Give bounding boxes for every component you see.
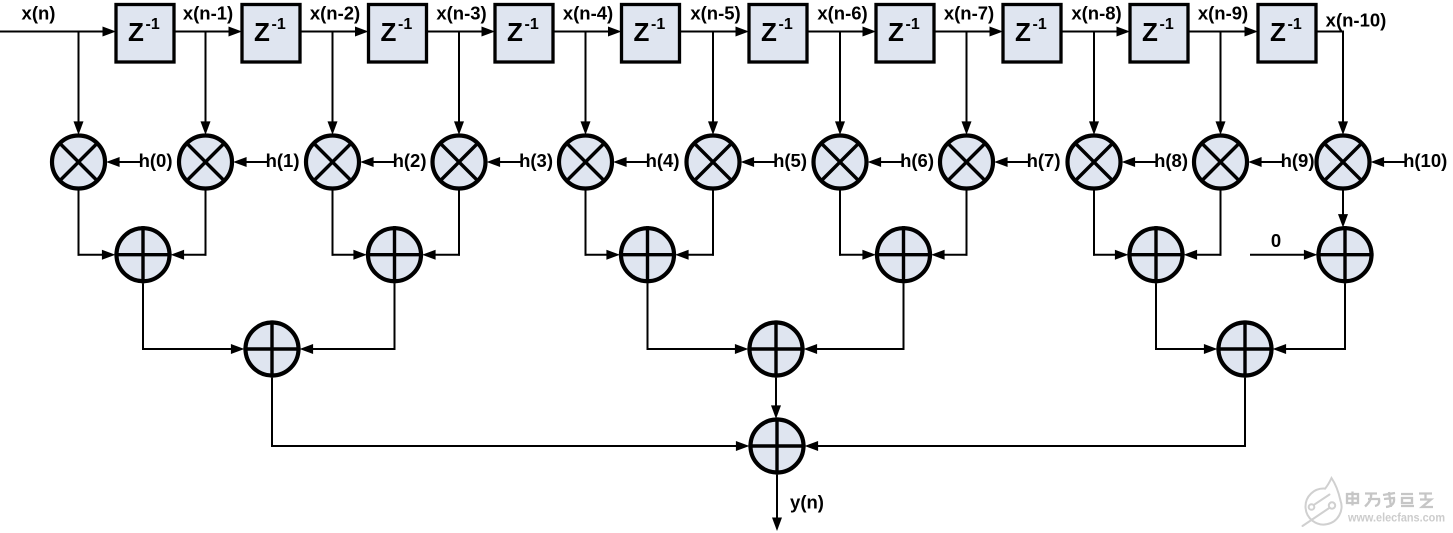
wire B1 output to final adder: [271, 378, 749, 451]
adder B2 (+): [747, 320, 804, 377]
coefficient wire h(6): [868, 157, 902, 167]
svg-text:x(n-5): x(n-5): [690, 3, 740, 24]
delay block Z10 (Z^-1): [1258, 5, 1316, 63]
tap wire to multiplier M9: [1216, 32, 1226, 135]
output wire y(n): [772, 475, 782, 531]
label h(9): [1281, 150, 1315, 171]
multiplier M7 (x): [940, 136, 993, 189]
multiplier M0 (x): [52, 136, 105, 189]
svg-text:x(n-9): x(n-9): [1198, 3, 1248, 24]
svg-text:x(n-4): x(n-4): [563, 3, 613, 24]
adder B1 (+): [243, 320, 300, 377]
svg-text:h(3): h(3): [519, 150, 553, 171]
multiplier M4 (x): [559, 136, 612, 189]
wire M6 output to adder A4: [839, 189, 876, 260]
wire M10 output to adder A6: [1338, 189, 1348, 228]
multiplier M8 (x): [1068, 136, 1121, 189]
label x(n): [22, 3, 56, 24]
svg-text:x(n-1): x(n-1): [183, 3, 233, 24]
wire M8 output to adder A5: [1093, 189, 1128, 260]
label h(4): [646, 150, 680, 171]
delay block Z6 (Z^-1): [749, 5, 807, 63]
svg-text:Z: Z: [1270, 17, 1286, 47]
input wire x(n): [0, 27, 116, 37]
wire zero input to adder A6: [1250, 250, 1317, 260]
svg-text:h(7): h(7): [1027, 150, 1061, 171]
coefficient wire h(2): [360, 157, 394, 167]
tap wire to multiplier M5: [708, 32, 718, 135]
coefficient wire h(4): [613, 157, 647, 167]
delay block Z1 (Z^-1): [116, 5, 174, 63]
label h(3): [519, 150, 553, 171]
wire x(n-4) from Z4 to Z5: [553, 27, 622, 37]
delay block Z3 (Z^-1): [369, 5, 427, 63]
coefficient wire h(5): [741, 157, 775, 167]
svg-text:x(n-8): x(n-8): [1071, 3, 1121, 24]
svg-text:h(4): h(4): [646, 150, 680, 171]
svg-text:Z: Z: [634, 17, 650, 47]
label h(6): [900, 150, 934, 171]
label x(n-1): [183, 3, 233, 24]
svg-text:h(8): h(8): [1154, 150, 1188, 171]
svg-text:h(6): h(6): [900, 150, 934, 171]
coefficient wire h(0): [106, 157, 140, 167]
svg-text:-1: -1: [525, 16, 539, 33]
wire M3 output to adder A2: [422, 189, 460, 260]
label x(n-7): [944, 3, 994, 24]
label h(7): [1027, 150, 1061, 171]
multiplier M5 (x): [687, 136, 740, 189]
adder B3 (+): [1216, 320, 1273, 377]
svg-text:-1: -1: [1033, 16, 1047, 33]
coefficient wire h(7): [994, 157, 1028, 167]
delay block Z8 (Z^-1): [1003, 5, 1061, 63]
svg-text:www.elecfans.com: www.elecfans.com: [1347, 511, 1445, 525]
tap wire to multiplier M6: [835, 32, 845, 135]
label x(n-3): [436, 3, 486, 24]
svg-text:-1: -1: [906, 16, 920, 33]
wire B3 output to final adder: [805, 378, 1246, 451]
svg-text:h(10): h(10): [1403, 150, 1447, 171]
svg-text:Z: Z: [1142, 17, 1158, 47]
wire M1 output to adder A1: [171, 189, 207, 260]
adder A5 (+): [1127, 226, 1184, 283]
wire M0 output to adder A1: [78, 189, 116, 260]
wire B2 output to final adder: [771, 378, 781, 419]
svg-text:x(n-10): x(n-10): [1326, 10, 1387, 31]
label x(n-4): [563, 3, 613, 24]
wire x(n-9) from Z9 to Z10: [1188, 27, 1258, 37]
wire A1 output to adder B1: [142, 283, 244, 354]
wire M2 output to adder A2: [332, 189, 367, 260]
adder A3 (+): [619, 226, 676, 283]
multiplier M1 (x): [179, 136, 232, 189]
label y(n): [790, 492, 824, 513]
wire x(n-6) from Z6 to Z7: [807, 27, 876, 37]
wire x(n-7) from Z7 to Z8: [934, 27, 1003, 37]
wire A4 output to adder B2: [804, 283, 905, 354]
delay block Z2 (Z^-1): [242, 5, 300, 63]
svg-text:Z: Z: [254, 17, 270, 47]
svg-text:h(5): h(5): [773, 150, 807, 171]
svg-text:x(n): x(n): [22, 3, 56, 24]
tap wire to multiplier M7: [962, 32, 972, 135]
svg-text:x(n-2): x(n-2): [310, 3, 360, 24]
svg-text:0: 0: [1271, 230, 1281, 251]
svg-text:-1: -1: [398, 16, 412, 33]
wire x(n-8) from Z8 to Z9: [1061, 27, 1130, 37]
svg-text:Z: Z: [507, 17, 523, 47]
tap wire to multiplier M0: [74, 32, 84, 135]
wire M7 output to adder A4: [931, 189, 967, 260]
label x(n-6): [817, 3, 867, 24]
multiplier M3 (x): [433, 136, 486, 189]
multiplier M9 (x): [1194, 136, 1247, 189]
svg-text:y(n): y(n): [790, 492, 824, 513]
label 0: [1271, 230, 1281, 251]
svg-text:-1: -1: [146, 16, 160, 33]
tap wire to multiplier M8: [1089, 32, 1099, 135]
wire x(n-5) from Z5 to Z6: [680, 27, 750, 37]
delay block Z5 (Z^-1): [622, 5, 680, 63]
svg-text:-1: -1: [272, 16, 286, 33]
label h(2): [393, 150, 427, 171]
delay block Z7 (Z^-1): [876, 5, 934, 63]
svg-text:h(0): h(0): [139, 150, 173, 171]
label h(1): [266, 150, 300, 171]
coefficient wire h(3): [487, 157, 521, 167]
coefficient wire h(8): [1122, 157, 1156, 167]
wire x(n-2) from Z2 to Z3: [300, 27, 369, 37]
delay block Z4 (Z^-1): [495, 5, 553, 63]
label x(n-8): [1071, 3, 1121, 24]
label h(5): [773, 150, 807, 171]
coefficient wire h(10): [1371, 157, 1405, 167]
svg-text:-1: -1: [779, 16, 793, 33]
wire M4 output to adder A3: [585, 189, 620, 260]
watermark text dianzi fashaoyou: [1347, 492, 1433, 508]
watermark elecfans logo: [1303, 478, 1342, 526]
svg-text:h(2): h(2): [393, 150, 427, 171]
label h(0): [139, 150, 173, 171]
svg-text:Z: Z: [761, 17, 777, 47]
tap wire to multiplier M1: [201, 32, 211, 135]
tap wire to multiplier M3: [454, 32, 464, 135]
tap wire to multiplier M4: [581, 32, 591, 135]
svg-text:x(n-3): x(n-3): [436, 3, 486, 24]
label x(n-9): [1198, 3, 1248, 24]
label x(n-2): [310, 3, 360, 24]
wire A5 output to adder B3: [1155, 283, 1217, 354]
svg-text:x(n-6): x(n-6): [817, 3, 867, 24]
svg-text:Z: Z: [128, 17, 144, 47]
adder A6 (+): [1316, 226, 1373, 283]
wire x(n-3) from Z3 to Z4: [427, 27, 496, 37]
wire A6 output to adder B3: [1273, 283, 1346, 354]
label x(n-5): [690, 3, 740, 24]
svg-text:-1: -1: [1160, 16, 1174, 33]
wire M5 output to adder A3: [675, 189, 714, 260]
adder A2 (+): [366, 226, 423, 283]
svg-text:-1: -1: [651, 16, 665, 33]
multiplier M6 (x): [814, 136, 867, 189]
delay block Z9 (Z^-1): [1130, 5, 1188, 63]
label h(10): [1403, 150, 1447, 171]
wire A2 output to adder B1: [300, 283, 396, 354]
adder A1 (+): [114, 226, 171, 283]
tap wire to multiplier M2: [328, 32, 338, 135]
wire M9 output to adder A5: [1184, 189, 1222, 260]
label x(n-10): [1326, 10, 1387, 31]
final adder C1 (+): [748, 417, 805, 474]
svg-text:h(1): h(1): [266, 150, 300, 171]
wire x(n-1) from Z1 to Z2: [174, 27, 242, 37]
svg-text:-1: -1: [1288, 16, 1302, 33]
coefficient wire h(1): [233, 157, 267, 167]
label h(8): [1154, 150, 1188, 171]
wire A3 output to adder B2: [647, 283, 749, 354]
coefficient wire h(9): [1248, 157, 1282, 167]
svg-text:h(9): h(9): [1281, 150, 1315, 171]
svg-text:Z: Z: [1015, 17, 1031, 47]
svg-text:x(n-7): x(n-7): [944, 3, 994, 24]
multiplier M2 (x): [306, 136, 359, 189]
svg-text:Z: Z: [888, 17, 904, 47]
wire x(n-10) from Z10 down to multiplier M10: [1316, 31, 1348, 135]
adder A4 (+): [875, 226, 932, 283]
svg-text:Z: Z: [381, 17, 397, 47]
multiplier M10 (x): [1317, 136, 1370, 189]
